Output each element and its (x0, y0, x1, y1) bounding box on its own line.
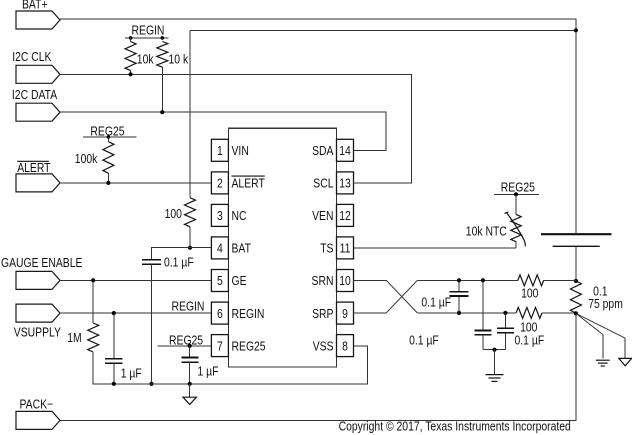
svg-text:1 µF: 1 µF (198, 364, 219, 378)
node I2C CLK input flag (12, 50, 60, 83)
svg-text:PACK−: PACK− (20, 397, 54, 411)
wire GE tap down to 1M resistor (92, 280, 94, 323)
ground triangle right (619, 358, 632, 365)
svg-text:0.1 µF: 0.1 µF (421, 295, 451, 309)
resistor R 10k (SCL pull-up) (125, 36, 136, 74)
svg-text:VIN: VIN (232, 144, 249, 158)
capacitor C 1uF (REG25) (181, 358, 198, 363)
wire BAT pin4 to 0.1uF cap (152, 248, 212, 260)
svg-text:1 µF: 1 µF (121, 366, 142, 380)
wire 100 to battery node (544, 279, 576, 281)
node junction dot VSS rail x189.7 (188, 382, 192, 386)
svg-text:11: 11 (340, 242, 351, 256)
svg-text:75 ppm: 75 ppm (588, 297, 623, 311)
wire cap down to VSS rail (113, 363, 115, 384)
svg-text:1M: 1M (67, 331, 81, 345)
op-amp U1 IC body bq gauge (228, 128, 336, 367)
svg-text:6: 6 (217, 307, 223, 321)
pin 5 GE (211, 270, 246, 292)
svg-text:SRP: SRP (312, 307, 334, 321)
svg-text:ALERT: ALERT (232, 177, 265, 191)
svg-text:10 k: 10 k (169, 52, 189, 66)
node VSUPPLY input flag (14, 304, 61, 340)
svg-text:100: 100 (165, 207, 183, 221)
wire VIN-net horizontal y30 from x190 to right rail (190, 29, 576, 31)
pin 3 NC (211, 204, 247, 226)
wire vertical x190 from y30 down to 100-ohm resistor (189, 30, 191, 197)
pin 10 SRN (312, 270, 354, 292)
node junction dot battery bottom / SRN net (574, 279, 578, 283)
pin 14 SDA (312, 139, 353, 161)
wire ALERT flag to pin2 (60, 182, 211, 184)
wire joining cap bottoms (483, 349, 506, 351)
svg-text:I2C CLK: I2C CLK (12, 50, 51, 64)
node PACK- input flag (16, 397, 60, 429)
svg-text:REGIN: REGIN (132, 23, 165, 37)
svg-text:14: 14 (339, 144, 351, 158)
svg-text:100: 100 (520, 320, 538, 334)
wire SRP pin9 with crossover up to SRN row (354, 312, 387, 314)
wire to chassis ground triangle (576, 313, 625, 338)
pin 4 BAT (211, 237, 251, 259)
capacitor C 1uF (REGIN) (105, 359, 122, 364)
resistor R sense 0.1 75ppm (570, 281, 581, 313)
wire I2C DATA to SDA pin14 (60, 112, 386, 150)
svg-text:TS: TS (320, 242, 333, 256)
node junction dot VSS rail x113.8 (112, 382, 116, 386)
svg-text:REG25: REG25 (501, 180, 535, 194)
svg-text:VSUPPLY: VSUPPLY (14, 325, 61, 339)
resistor R 100 (BAT filter) (185, 198, 196, 227)
wire bottom sense row after crossover (417, 312, 516, 314)
wire 100-ohm bottom to BAT pin wire (189, 227, 191, 248)
node junction dot right rail y30 (574, 28, 578, 32)
svg-text:10k: 10k (137, 52, 154, 66)
pin 13 SCL (313, 172, 353, 194)
svg-text:7: 7 (217, 339, 223, 353)
node GAUGE ENABLE input flag (1, 256, 83, 289)
node REG25 label at pin7 (158, 333, 212, 347)
node REG25 rail label (ALERT pull-up) (83, 124, 137, 138)
svg-text:VSS: VSS (313, 339, 334, 353)
wire BAT+ top rail to right column (60, 19, 576, 234)
node junction dot x482.9 top row (481, 278, 485, 282)
resistor R 100k (ALERT pull-up) (103, 135, 114, 183)
pin 1 VIN (211, 139, 248, 161)
node junction dot on REG25 TS rail (514, 192, 518, 196)
svg-text:0.1 µF: 0.1 µF (409, 333, 439, 347)
svg-text:REG25: REG25 (232, 339, 266, 353)
pin 2 ALERT (211, 172, 264, 194)
node junction dot on GE wire (91, 278, 95, 282)
svg-text:10: 10 (339, 274, 351, 288)
node REGIN pull-up rail label (125, 23, 169, 38)
resistor R 100 (SRN filter) (518, 275, 544, 286)
svg-text:GE: GE (232, 274, 247, 288)
svg-text:I2C DATA: I2C DATA (12, 88, 57, 102)
wire VSUPPLY to pin6 REGIN (60, 312, 211, 314)
svg-text:9: 9 (342, 307, 348, 321)
pin 9 SRP (312, 302, 353, 324)
svg-text:SRN: SRN (312, 274, 334, 288)
wire REG25 tap down to 1uF cap (189, 346, 191, 358)
svg-text:REGIN: REGIN (172, 299, 205, 313)
svg-text:100: 100 (521, 286, 539, 300)
pin 6 REGIN (211, 302, 264, 324)
node junction dot on I2C CLK (129, 72, 133, 76)
wire GAUGE ENABLE to pin5 GE (60, 279, 211, 281)
wire 100 to pack node (542, 312, 576, 314)
node ALERT input flag (16, 161, 60, 192)
svg-text:ALERT: ALERT (17, 161, 50, 175)
pin 12 VEN (312, 204, 353, 226)
capacitor C 0.1uF (SRN to gnd) (474, 280, 491, 349)
svg-text:GAUGE ENABLE: GAUGE ENABLE (1, 256, 83, 270)
resistor R 1M (88, 323, 99, 352)
wire 1M bottom to VSS rail corner (93, 346, 367, 384)
wire cap bottom down to VSS rail (151, 264, 153, 384)
node junction dot gnd stub (492, 348, 496, 352)
ground earth symbol below caps (486, 350, 504, 382)
node REG25 rail label (TS bias) (494, 180, 539, 194)
capacitor C 0.1uF differential (450, 280, 469, 313)
wire TS pin11 to thermistor (354, 247, 517, 249)
resistor R 10k (SDA pull-up) (157, 36, 168, 112)
svg-text:0.1 µF: 0.1 µF (164, 255, 194, 269)
ground signal triangle below VSS rail (183, 384, 196, 405)
node junction dot on VSUPPLY wire (112, 311, 116, 315)
wire top sense row after crossover (417, 279, 518, 281)
wire SRN pin10 with crossover down to SRP row (354, 279, 387, 281)
svg-text:BAT+: BAT+ (22, 0, 48, 12)
svg-text:5: 5 (217, 274, 223, 288)
svg-text:12: 12 (339, 209, 351, 223)
svg-text:SCL: SCL (313, 177, 334, 191)
node junction dot on ALERT wire (106, 181, 110, 185)
node BAT+ input flag (16, 0, 60, 29)
svg-text:13: 13 (339, 177, 351, 191)
node junction dot on I2C DATA (160, 110, 164, 114)
svg-text:1: 1 (217, 144, 223, 158)
node junction dot on BAT wire (188, 246, 192, 250)
pin 7 REG25 (211, 335, 266, 357)
wire VSUPPLY tap down to 1uF cap (113, 313, 115, 359)
node junction dot below sense resistor (574, 311, 578, 315)
svg-text:3: 3 (217, 209, 223, 223)
svg-text:VEN: VEN (312, 209, 333, 223)
node junction dot x505.4 bottom row (503, 311, 507, 315)
node junction dot VSS rail x151.5 (149, 382, 153, 386)
svg-text:8: 8 (342, 339, 348, 353)
svg-text:0.1 µF: 0.1 µF (515, 333, 545, 347)
svg-text:2: 2 (217, 177, 223, 191)
resistor R 100 (SRP filter) (516, 307, 542, 318)
capacitor C 0.1uF (BAT) (142, 260, 161, 264)
svg-text:Copyright © 2017, Texas Instru: Copyright © 2017, Texas Instruments Inco… (339, 419, 571, 433)
wire to earth ground (sense node) (576, 313, 603, 334)
svg-text:BAT: BAT (232, 242, 251, 256)
wire right rail down to PACK- row (60, 313, 576, 420)
ground earth symbol right (596, 360, 610, 366)
pin 11 TS (320, 237, 353, 259)
svg-text:NC: NC (232, 209, 247, 223)
svg-text:10k NTC: 10k NTC (466, 224, 507, 238)
node I2C DATA input flag (12, 88, 60, 121)
battery cell BT1 (541, 234, 612, 281)
thermistor RT 10k NTC (505, 194, 526, 248)
pin 8 VSS (313, 335, 354, 357)
capacitor C 0.1uF (SRP to gnd) (497, 313, 514, 350)
node junction dot REG25 wire (188, 344, 192, 348)
svg-text:REGIN: REGIN (232, 307, 265, 321)
wire I2C CLK to SCL pin13 (60, 74, 411, 183)
wire cap down to VSS rail (189, 362, 191, 384)
svg-text:SDA: SDA (312, 144, 334, 158)
svg-text:4: 4 (217, 242, 223, 256)
node junction dots differential cap x459 (457, 278, 461, 315)
svg-text:100k: 100k (75, 152, 98, 166)
